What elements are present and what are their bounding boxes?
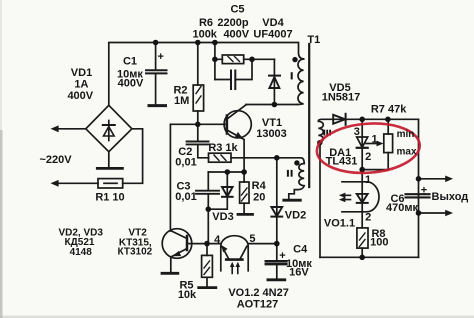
svg-text:VO1.1: VO1.1 xyxy=(324,217,355,229)
svg-text:R3 1k: R3 1k xyxy=(208,142,238,154)
junction R6 right xyxy=(249,57,255,63)
svg-text:R4: R4 xyxy=(252,180,267,192)
highlight ellipse around DA1 xyxy=(315,120,421,176)
diode VD5 xyxy=(333,114,345,125)
potentiometer R7 body xyxy=(384,134,393,153)
resistor R5 body xyxy=(202,255,213,277)
resistor R1 body xyxy=(98,179,123,188)
wire output minus arrow xyxy=(419,210,454,217)
capacitor C5 plates xyxy=(231,71,235,90)
svg-text:1M: 1M xyxy=(174,95,189,107)
junction R6 left xyxy=(212,57,218,63)
svg-text:T1: T1 xyxy=(307,34,320,46)
transistor VT1 collector xyxy=(227,105,246,119)
svg-text:1N5817: 1N5817 xyxy=(322,91,361,103)
junction VT2 base R5 xyxy=(204,241,210,247)
svg-text:1A: 1A xyxy=(74,78,88,90)
junction C4 VD2 pin5 xyxy=(274,241,280,247)
optocoupler VO1.2 photo arrows xyxy=(230,262,240,274)
junction DA1 cathode xyxy=(359,117,365,123)
wire emitter node xyxy=(208,171,244,173)
transistor VT2 collector xyxy=(170,231,187,239)
svg-text:R1 10: R1 10 xyxy=(95,192,124,204)
ground winding II xyxy=(284,199,301,202)
junction VD3 top xyxy=(225,169,231,175)
svg-text:R7 47k: R7 47k xyxy=(371,103,407,115)
svg-text:VD2: VD2 xyxy=(285,210,306,222)
svg-text:3: 3 xyxy=(354,126,360,138)
svg-text:10k: 10k xyxy=(178,289,197,301)
capacitor C6 plates xyxy=(406,194,430,197)
winding number I xyxy=(291,72,293,79)
resistor R2 body xyxy=(193,85,203,111)
ground VT2 emitter xyxy=(162,272,178,275)
capacitor C3 plates xyxy=(196,191,219,194)
capacitor C2 plates xyxy=(187,142,209,145)
optocoupler VO1.2 outline xyxy=(221,236,248,271)
ground R4 xyxy=(238,213,253,216)
svg-text:1: 1 xyxy=(365,174,371,186)
svg-text:470мк: 470мк xyxy=(386,202,418,214)
svg-text:4: 4 xyxy=(214,234,221,246)
junction VD4 anode collector rail xyxy=(272,102,278,108)
transistor VT1 base bar xyxy=(226,116,229,134)
svg-text:0,01: 0,01 xyxy=(175,156,196,168)
bridge VD1 body xyxy=(86,105,132,151)
transistor VT2 base bar xyxy=(186,236,189,250)
junction R2 top rail xyxy=(195,40,201,46)
svg-text:0,01: 0,01 xyxy=(175,191,196,203)
svg-text:2: 2 xyxy=(365,212,371,224)
svg-text:13003: 13003 xyxy=(256,128,287,140)
svg-text:+: + xyxy=(421,185,427,197)
wire base node xyxy=(170,123,227,125)
transistor VT2 body xyxy=(162,229,192,259)
junction VD3 bottom xyxy=(206,206,212,212)
svg-text:1: 1 xyxy=(371,134,377,146)
LED VO1.1 xyxy=(357,170,368,228)
transformer T1 winding III xyxy=(318,119,347,144)
diode VD2 xyxy=(271,158,282,244)
svg-text:+: + xyxy=(157,51,163,63)
transistor VT1 body xyxy=(224,111,251,138)
svg-text:VD3: VD3 xyxy=(212,211,233,223)
wire top rail from bridge top to transformer primary top xyxy=(109,43,304,106)
wire secondary right rail xyxy=(418,119,420,257)
diode VD4 xyxy=(269,59,280,104)
capacitor C4 leads xyxy=(276,244,278,279)
optocoupler VO1.1 outline xyxy=(342,182,379,212)
resistor R6 body xyxy=(222,55,243,64)
transistor VT1 emitter xyxy=(227,130,244,172)
capacitor C1 leads xyxy=(155,43,157,105)
junction output minus xyxy=(416,210,422,216)
junction VD2 top winding II xyxy=(274,155,280,161)
svg-text:+: + xyxy=(279,250,285,262)
resistor R6 leads xyxy=(215,58,252,60)
svg-text:400V: 400V xyxy=(118,78,144,90)
svg-text:16V: 16V xyxy=(289,266,309,278)
junction R8 bottom rail xyxy=(359,254,365,260)
transformer T1 winding II xyxy=(289,164,304,199)
diode VD3 xyxy=(208,172,232,209)
svg-text:VO1.2 4N27: VO1.2 4N27 xyxy=(228,287,289,299)
svg-text:100: 100 xyxy=(370,237,388,249)
transformer T1 winding I xyxy=(298,59,304,105)
resistor R5 leads xyxy=(206,244,208,287)
bridge VD1 inner diode xyxy=(103,121,115,141)
svg-text:TL431: TL431 xyxy=(326,156,358,168)
wire VO1.2 pin5 to C4 node xyxy=(248,243,277,245)
junction DA1 anode R7 bottom xyxy=(359,167,365,173)
resistor R4 leads xyxy=(243,172,245,213)
svg-text:400V: 400V xyxy=(67,90,93,102)
wire AC input bottom xyxy=(51,180,99,187)
svg-text:5: 5 xyxy=(249,233,255,245)
polarity dot winding II xyxy=(294,160,299,165)
svg-text:R6: R6 xyxy=(199,17,213,29)
ground C1 xyxy=(149,104,166,107)
junction VT1 base node xyxy=(195,122,201,128)
svg-text:VD1: VD1 xyxy=(71,67,92,79)
capacitor C3 leads xyxy=(207,172,209,209)
svg-text:КТ3102: КТ3102 xyxy=(118,247,153,258)
polarity dot winding III xyxy=(317,140,322,145)
wire collector node rail xyxy=(246,104,298,106)
svg-text:VD4: VD4 xyxy=(262,17,284,29)
optocoupler VO1.2 emitter xyxy=(221,245,228,259)
wire DA1 ref arrow xyxy=(366,141,384,147)
resistor R4 body xyxy=(240,182,249,203)
capacitor C5 leads xyxy=(215,59,252,79)
svg-text:20: 20 xyxy=(253,192,265,204)
svg-text:4148: 4148 xyxy=(70,247,93,258)
winding number II xyxy=(287,170,293,177)
wire snubber left branch xyxy=(214,43,216,80)
svg-text:C5: C5 xyxy=(230,4,244,16)
wire secondary bottom rail xyxy=(320,256,419,258)
winding number III xyxy=(323,130,331,136)
svg-text:100k: 100k xyxy=(192,28,217,40)
transformer T1 core xyxy=(308,44,310,187)
wire R3 to winding II xyxy=(231,158,304,164)
wire VT2 base node xyxy=(187,243,221,245)
regulator DA1 TL431 xyxy=(357,119,368,169)
junction VT1 emitter R4 xyxy=(241,169,247,175)
svg-text:C1: C1 xyxy=(123,56,137,68)
junction R7 top xyxy=(385,117,391,123)
ground C4 xyxy=(268,278,285,281)
resistor R3 body xyxy=(209,153,232,162)
resistor R8 bottom lead xyxy=(361,248,363,257)
svg-text:C4: C4 xyxy=(293,244,308,256)
wire snubber to VD4 xyxy=(252,58,274,60)
capacitor C4 plates xyxy=(266,261,287,264)
svg-text:~220V: ~220V xyxy=(39,154,72,166)
ground bridge xyxy=(97,152,122,169)
svg-text:2: 2 xyxy=(365,151,371,163)
svg-text:АОТ127: АОТ127 xyxy=(237,299,278,311)
junction C1 top rail xyxy=(153,40,159,46)
ground R5 xyxy=(199,286,216,289)
svg-text:max: max xyxy=(396,146,416,157)
wire secondary left rail xyxy=(319,144,321,257)
svg-text:min: min xyxy=(397,129,415,140)
wire VT2 collector riser xyxy=(169,124,171,231)
wire AC input top xyxy=(51,125,86,132)
junction snubber top rail xyxy=(212,40,218,46)
potentiometer R7 leads xyxy=(362,119,388,169)
junction output plus xyxy=(416,176,422,182)
optocoupler VO1.2 collector xyxy=(240,246,247,258)
svg-text:2200p: 2200p xyxy=(217,17,248,29)
wire output plus arrow xyxy=(419,176,454,183)
svg-text:400V: 400V xyxy=(223,28,249,40)
resistor R2 leads xyxy=(197,43,199,125)
transistor VT2 emitter xyxy=(171,249,187,273)
wire C3 bottom to VT2 base node xyxy=(207,209,209,243)
capacitor C2 leads xyxy=(198,124,209,158)
resistor R8 body xyxy=(357,228,368,248)
capacitor C1 plates xyxy=(146,70,167,73)
polarity dot winding I xyxy=(292,57,297,62)
wire bridge to R1 xyxy=(123,129,143,184)
svg-text:Выход: Выход xyxy=(432,191,469,203)
VO1.1 light arrows xyxy=(339,193,351,203)
svg-text:UF4007: UF4007 xyxy=(253,28,292,40)
optocoupler VO1.2 base bar xyxy=(226,258,242,261)
wire secondary top rail xyxy=(346,118,419,120)
